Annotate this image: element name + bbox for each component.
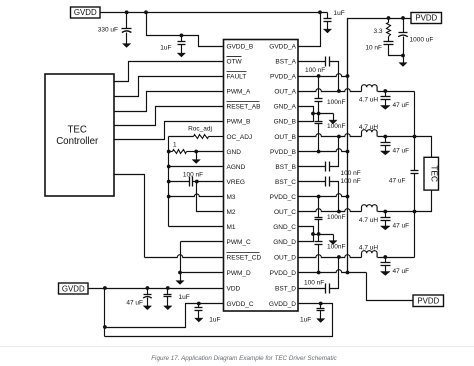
capacitor 330 uF bbox=[126, 13, 128, 29]
wire VDD (GVDD to U1) bbox=[89, 288, 224, 290]
GVDD terminal (top) bbox=[71, 7, 101, 18]
svg-text:100nF: 100nF bbox=[327, 99, 345, 106]
node GVDD / bottom riser bbox=[103, 286, 107, 290]
svg-text:PVDD_C: PVDD_C bbox=[270, 194, 297, 201]
node OUT_B / C47u bbox=[383, 135, 387, 139]
node PVDD_D / decoupling bbox=[317, 271, 321, 275]
PVDD terminal (bottom) bbox=[413, 295, 444, 307]
node analog rail / R1 bbox=[167, 150, 171, 154]
node GND bracket mid (A/B) bbox=[311, 112, 315, 116]
svg-text:100 nF: 100 nF bbox=[304, 279, 324, 286]
svg-text:OUT_B: OUT_B bbox=[274, 134, 296, 141]
op IC U1 (TEC driver) bbox=[224, 40, 299, 312]
svg-text:TEC: TEC bbox=[429, 165, 439, 182]
node OUT_D / C47u bbox=[383, 255, 387, 259]
node PVDD_C / rail bbox=[346, 195, 350, 199]
svg-text:OUT_A: OUT_A bbox=[274, 88, 296, 95]
svg-text:4.7 uH: 4.7 uH bbox=[359, 244, 378, 251]
node GND bracket mid (C/D) bbox=[311, 232, 315, 236]
svg-text:1uF: 1uF bbox=[300, 317, 311, 324]
svg-text:100nF: 100nF bbox=[327, 214, 345, 221]
capacitor 100nF pair (PVDD decoupling) (C/D) bbox=[318, 197, 320, 218]
svg-text:M3: M3 bbox=[227, 194, 236, 201]
wire FAULT (controller to U1) bbox=[115, 77, 224, 97]
svg-text:100 nF: 100 nF bbox=[305, 67, 325, 74]
wire analog rail bbox=[168, 137, 170, 227]
wire GND to pin bbox=[197, 151, 224, 153]
svg-text:AGND: AGND bbox=[227, 164, 246, 171]
wire OUT_D bbox=[299, 255, 362, 258]
node PVDD_B / rail bbox=[346, 150, 350, 154]
node GVDD_D / C1u bbox=[319, 302, 323, 306]
svg-text:TEC: TEC bbox=[68, 124, 87, 135]
svg-text:GVDD: GVDD bbox=[74, 8, 97, 17]
svg-text:4.7 uH: 4.7 uH bbox=[359, 217, 378, 224]
wire AGND bbox=[169, 166, 224, 168]
svg-text:GVDD_A: GVDD_A bbox=[269, 43, 296, 50]
node analog rail / AGND bbox=[167, 165, 171, 169]
svg-text:GND: GND bbox=[227, 149, 242, 156]
node OUT_A / BST bbox=[337, 89, 341, 93]
ground (GND row) bbox=[196, 152, 198, 161]
svg-text:Roc_adj: Roc_adj bbox=[188, 125, 212, 132]
svg-text:Controller: Controller bbox=[56, 136, 99, 147]
svg-text:PVDD_A: PVDD_A bbox=[270, 73, 297, 80]
inductor 4.7 uH (B) bbox=[362, 130, 378, 137]
node GVDD rail / GVDD_A branch bbox=[318, 10, 322, 14]
node OUT_D / BST bbox=[337, 255, 341, 259]
wire GVDD_D return (bottom rail) bbox=[105, 304, 333, 337]
node GVDD_B branch / C1uF bbox=[180, 34, 184, 38]
TEC controller block bbox=[45, 74, 114, 196]
capacitor 47 uF (OUT_B) bbox=[385, 137, 387, 143]
svg-text:100nF: 100nF bbox=[327, 123, 345, 130]
wire OUT_C bbox=[299, 209, 362, 212]
inductor 4.7 uH (D) bbox=[362, 251, 378, 258]
node GVDD rail / GVDD_B branch bbox=[144, 10, 148, 14]
capacitor 100 nF (VREG) bbox=[169, 181, 190, 183]
inductor 4.7 uH (A) bbox=[362, 85, 378, 92]
node PVDD rail / C1000 bbox=[401, 16, 405, 20]
svg-text:RESET_AB: RESET_AB bbox=[227, 103, 261, 110]
capacitor 1uF (GVDD_C) bbox=[198, 304, 200, 308]
node PVDD_D / rail bbox=[346, 271, 350, 275]
svg-text:GVDD_C: GVDD_C bbox=[227, 301, 254, 308]
wire OUT_A after inductor bbox=[378, 91, 415, 93]
wire PVDD_B bbox=[299, 149, 348, 152]
svg-text:GND_B: GND_B bbox=[274, 118, 296, 125]
svg-text:GND_A: GND_A bbox=[274, 103, 297, 110]
GVDD terminal (bottom) bbox=[59, 283, 89, 294]
node PVDD rail / snubber bbox=[387, 16, 391, 20]
wire PVDD_C bbox=[299, 194, 348, 197]
capacitor 100 nF (BST_A) bbox=[299, 61, 326, 63]
svg-text:4.7 uH: 4.7 uH bbox=[359, 124, 378, 131]
svg-text:1uF: 1uF bbox=[209, 317, 220, 324]
ground (bridge) (C/D) bbox=[333, 235, 335, 242]
node PVDD_C / decoupling bbox=[317, 195, 321, 199]
wire GND bracket (C/D) bbox=[299, 227, 314, 242]
svg-text:Figure 17. Application Diagram: Figure 17. Application Diagram Example f… bbox=[151, 355, 337, 362]
ground (bridge) (A/B) bbox=[333, 114, 335, 121]
svg-text:1uF: 1uF bbox=[160, 45, 171, 52]
node VREG / M2 branch bbox=[195, 180, 199, 184]
wire GVDD_C return bbox=[105, 304, 224, 328]
wire bottom riser bbox=[104, 289, 106, 337]
capacitor 1000 uF bbox=[403, 19, 405, 33]
wire OUT_A bbox=[299, 89, 362, 92]
wire OUT_C after inductor bbox=[378, 211, 415, 213]
node decoupling mid (A/B) bbox=[317, 112, 321, 116]
wire PWM_A (controller to U1) bbox=[115, 92, 224, 112]
svg-text:47 uF: 47 uF bbox=[393, 148, 410, 155]
inductor 4.7 uH (C) bbox=[362, 205, 378, 212]
node R1 / GND wire bbox=[194, 150, 198, 154]
svg-text:GND_D: GND_D bbox=[273, 239, 296, 246]
capacitor 1uF (GVDD_B) bbox=[181, 36, 183, 42]
node PWM_D junction bbox=[178, 271, 182, 275]
capacitor 100 nF (BST_C) bbox=[299, 181, 326, 183]
ground (PWM_C/PWM_D) bbox=[180, 273, 182, 282]
node OUT_C/OUT_D join bbox=[413, 210, 417, 214]
capacitor 47 uF (TEC filter) bbox=[414, 137, 416, 171]
wire RESET_AB (controller to U1) bbox=[115, 107, 224, 126]
wire PVDD_D bbox=[299, 270, 367, 273]
wire M2 branch bbox=[197, 182, 224, 212]
capacitor 47 uF (OUT_D) bbox=[385, 258, 387, 263]
svg-text:47 uF: 47 uF bbox=[393, 223, 410, 230]
svg-text:4.7 uH: 4.7 uH bbox=[359, 97, 378, 104]
svg-text:47 uF: 47 uF bbox=[126, 300, 143, 307]
svg-text:100 nF: 100 nF bbox=[183, 172, 203, 179]
svg-text:M2: M2 bbox=[227, 209, 236, 216]
wire PVDD rail vertical bbox=[347, 19, 349, 273]
svg-text:BST_D: BST_D bbox=[275, 285, 296, 292]
svg-text:47 uF: 47 uF bbox=[393, 268, 410, 275]
wire GVDD_A branch bbox=[299, 13, 321, 47]
svg-text:M1: M1 bbox=[227, 224, 236, 231]
svg-text:100 nF: 100 nF bbox=[341, 170, 361, 177]
PVDD terminal (top) bbox=[411, 13, 442, 24]
wire RESET_CD (controller to U1) bbox=[115, 175, 145, 258]
capacitor 1uF (GVDD_A) bbox=[327, 13, 329, 19]
wire M1 bbox=[169, 226, 224, 228]
svg-text:1uF: 1uF bbox=[334, 10, 345, 17]
capacitor 100 nF (BST_D) bbox=[299, 288, 326, 290]
svg-text:GVDD: GVDD bbox=[62, 284, 85, 293]
wire OUT_A to TEC bus bbox=[414, 92, 416, 137]
node GVDD / C47u bbox=[146, 286, 150, 290]
node OUT_C / C47u bbox=[383, 210, 387, 214]
resistor 3.3 (snubber) bbox=[388, 19, 390, 23]
svg-text:PWM_C: PWM_C bbox=[227, 239, 252, 246]
node PVDD_A / decoupling bbox=[317, 74, 321, 78]
wire OUT_D to TEC bus bbox=[414, 212, 416, 258]
node OUT_C / BST bbox=[337, 210, 341, 214]
svg-text:PVDD: PVDD bbox=[415, 14, 437, 23]
svg-text:GND_C: GND_C bbox=[273, 224, 296, 231]
capacitor 47 uF (OUT_C) bbox=[385, 212, 387, 218]
wire OUT_C to TEC bbox=[415, 191, 432, 212]
svg-text:FAULT: FAULT bbox=[227, 73, 247, 80]
svg-text:1uF: 1uF bbox=[179, 294, 190, 301]
svg-text:1: 1 bbox=[173, 142, 177, 149]
wire PWM_B (controller to U1) bbox=[115, 122, 224, 140]
wire PVDD_D to bottom PVDD terminal bbox=[367, 273, 414, 301]
svg-text:BST_A: BST_A bbox=[275, 58, 296, 65]
capacitor 47 uF (VDD) bbox=[147, 289, 149, 295]
wire M3 bbox=[169, 194, 224, 197]
node GVDD rail / C330 bbox=[125, 10, 129, 14]
svg-text:GVDD_B: GVDD_B bbox=[227, 43, 254, 50]
wire PWM_C to PWM_D bbox=[180, 242, 182, 273]
wire PWM_C bbox=[181, 241, 224, 243]
svg-text:330 uF: 330 uF bbox=[98, 27, 118, 34]
wire OC_ADJ bbox=[169, 136, 194, 138]
capacitor 10 nF (snubber) bbox=[388, 37, 390, 42]
node riser / GVDD_C rail bbox=[103, 325, 107, 329]
svg-text:GVDD_D: GVDD_D bbox=[269, 301, 296, 308]
wire OUT_B to TEC bbox=[415, 137, 432, 158]
node PVDD_B / decoupling bbox=[317, 150, 321, 154]
wire OTW (controller to U1) bbox=[115, 62, 224, 82]
node OUT_A/OUT_B join bbox=[413, 135, 417, 139]
node GVDD / C1u VDD bbox=[166, 286, 170, 290]
svg-text:OTW: OTW bbox=[227, 58, 243, 65]
svg-text:PVDD_B: PVDD_B bbox=[270, 149, 296, 156]
svg-text:PVDD_D: PVDD_D bbox=[270, 270, 297, 277]
svg-text:PWM_A: PWM_A bbox=[227, 88, 252, 95]
svg-text:1000 uF: 1000 uF bbox=[410, 37, 434, 44]
svg-text:47 uF: 47 uF bbox=[389, 178, 406, 185]
wire PVDD_A bbox=[299, 74, 348, 77]
svg-text:OC_ADJ: OC_ADJ bbox=[227, 134, 253, 141]
svg-text:BST_C: BST_C bbox=[275, 179, 296, 186]
wire PWM_D bbox=[181, 272, 224, 274]
svg-text:VDD: VDD bbox=[227, 285, 241, 292]
svg-text:100 nF: 100 nF bbox=[341, 178, 361, 185]
capacitor 100nF pair (PVDD decoupling) (A/B) bbox=[318, 77, 320, 99]
svg-text:PWM_D: PWM_D bbox=[227, 270, 252, 277]
wire OUT_B bbox=[299, 134, 362, 137]
svg-text:PWM_B: PWM_B bbox=[227, 118, 251, 125]
node analog rail / M3 bbox=[167, 195, 171, 199]
wire GND bracket (A/B) bbox=[299, 107, 314, 122]
node decoupling mid (C/D) bbox=[317, 232, 321, 236]
node analog rail / C100n VREG bbox=[167, 180, 171, 184]
node PVDD_A / rail bbox=[346, 74, 350, 78]
capacitor 1uF (GVDD_D) bbox=[320, 304, 322, 309]
svg-text:10 nF: 10 nF bbox=[365, 45, 382, 52]
TEC element bbox=[424, 157, 439, 190]
capacitor 100 nF (BST_B) bbox=[299, 166, 326, 168]
wire GVDD_B branch bbox=[147, 13, 224, 47]
svg-text:OUT_C: OUT_C bbox=[274, 209, 296, 216]
wire GVDD rail (top) bbox=[101, 12, 328, 14]
svg-text:OUT_D: OUT_D bbox=[274, 254, 296, 261]
node OUT_B / BST bbox=[337, 135, 341, 139]
capacitor 47 uF (OUT_A) bbox=[385, 92, 387, 97]
resistor 1 (GND row) bbox=[169, 151, 173, 153]
divider line bbox=[0, 346, 474, 348]
capacitor 1uF (VDD) bbox=[167, 289, 169, 295]
wire PVDD rail (top) bbox=[348, 19, 412, 273]
svg-text:3.3: 3.3 bbox=[373, 28, 382, 35]
node GVDD_C / C1u bbox=[197, 302, 201, 306]
wire OUT_D after inductor bbox=[378, 257, 415, 259]
node OUT_A / C47u bbox=[383, 89, 387, 93]
svg-text:BST_B: BST_B bbox=[275, 164, 296, 171]
svg-text:PVDD: PVDD bbox=[417, 297, 439, 306]
wire OUT_B after inductor bbox=[378, 136, 415, 138]
svg-text:100nF: 100nF bbox=[327, 243, 345, 250]
svg-text:47 uF: 47 uF bbox=[393, 102, 410, 109]
svg-text:RESET_CD: RESET_CD bbox=[227, 254, 262, 261]
svg-text:VREG: VREG bbox=[227, 179, 245, 186]
